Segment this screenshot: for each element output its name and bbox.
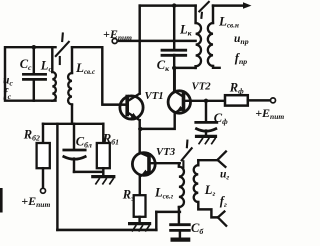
svg-text:VT1: VT1 bbox=[145, 90, 164, 102]
svg-text:VT3: VT3 bbox=[156, 146, 176, 158]
svg-text:VT2: VT2 bbox=[192, 81, 212, 93]
